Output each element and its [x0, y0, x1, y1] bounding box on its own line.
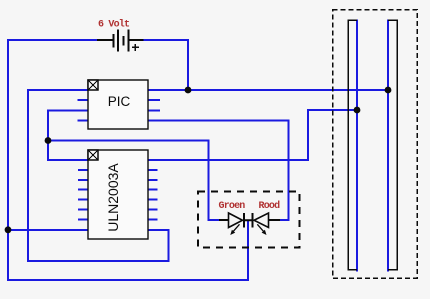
junction dot left rail	[5, 226, 12, 233]
junction node A	[45, 137, 52, 144]
junction dot left contact strip	[354, 107, 361, 114]
wire battery plus to PIC pin1 node	[143, 40, 188, 90]
wire ULN2003A pin1 right to left contact strip	[148, 110, 357, 160]
svg-text:6 Volt: 6 Volt	[98, 19, 130, 31]
wire branch from left rail to ULN2003A pin 8 left	[8, 229, 88, 231]
svg-text:ULN2003A: ULN2003A	[105, 163, 121, 232]
pin stub PIC pin4 left	[78, 120, 89, 122]
contact strip left (black outline)	[348, 20, 357, 270]
wire PIC pin4 right to red LED cathode	[148, 121, 289, 220]
LED D1 Groen	[219, 213, 244, 235]
junction dot right contact strip	[385, 87, 392, 94]
junction dot battery plus / PIC pin1	[185, 87, 192, 94]
pin stub PIC pin2 right	[148, 99, 160, 101]
svg-text:PIC: PIC	[108, 94, 131, 109]
wire left contact strip electrode	[356, 20, 358, 272]
pin stub PIC pin2 left	[78, 99, 89, 101]
battery B1 6 Volt	[97, 30, 144, 52]
wire PIC pin1 left loop to ULN2003A pin8 right	[28, 90, 169, 261]
svg-text:Rood: Rood	[259, 200, 281, 212]
svg-text:Groen: Groen	[219, 201, 246, 212]
wire right contact strip electrode	[387, 20, 389, 272]
wire branch node A to green LED anode	[48, 141, 219, 221]
wire PIC pin3 left down to ULN2003A pin1 left	[48, 110, 88, 160]
battery plus sign	[132, 44, 139, 51]
IC U1 PIC box	[88, 80, 148, 129]
IC U2 ULN2003A box	[88, 150, 148, 239]
contact strip right (black outline)	[388, 20, 397, 270]
pin stubs ULN2003A left pins 2-7	[78, 170, 88, 220]
LED D2 Rood	[244, 213, 280, 235]
wire battery minus rail: left rail down and along bottom to LED common	[8, 40, 248, 280]
dashed enclosure contact strips box	[333, 10, 418, 279]
wire PIC pin1 right to right contact strip	[148, 89, 388, 91]
pin stubs ULN2003A right pins 2-7	[148, 170, 158, 220]
dashed enclosure LED indicator box	[198, 192, 300, 248]
pin stub PIC pin3 right	[148, 109, 160, 111]
